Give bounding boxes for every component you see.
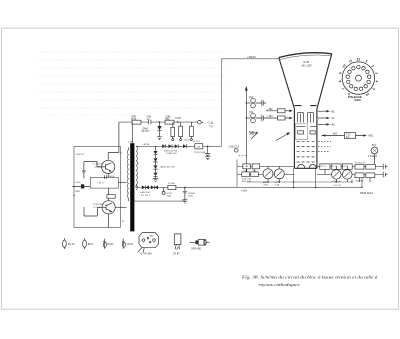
wire chain feed vertical <box>131 122 133 143</box>
wire grid feed lower with resistor R72 <box>266 117 289 119</box>
resistor row2 right b <box>366 173 375 178</box>
resistor row1 right c <box>342 164 352 169</box>
focus divider C54 circles <box>251 113 256 118</box>
resistor row2 right a <box>355 173 364 178</box>
wire transformer bottom return <box>134 200 185 202</box>
potentiometer 0.9k circle b <box>343 170 353 180</box>
node enclosure junction <box>73 195 74 196</box>
svg-text:rayons cathodiques: rayons cathodiques <box>259 282 300 287</box>
focus divider C52 circles <box>251 98 256 103</box>
svg-text:+ 50V: + 50V <box>241 190 248 193</box>
wire anode to C52 <box>246 102 250 104</box>
wire G-network row 2 <box>237 173 383 175</box>
svg-text:T2 BD233: T2 BD233 <box>93 204 104 206</box>
svg-text:44.2TR: 44.2TR <box>142 131 150 133</box>
svg-text:A40U (6) 1/TR: A40U (6) 1/TR <box>161 165 176 168</box>
capacitor C53 <box>255 100 266 106</box>
wire neck right out 3 <box>318 123 327 125</box>
capacitor electrolytic C-BL <box>81 184 84 188</box>
diode DH1 <box>162 144 165 148</box>
svg-text:B2B: B2B <box>189 195 194 197</box>
resistor R24B on bus <box>168 185 176 189</box>
resistor row1 left b <box>252 164 260 169</box>
svg-text:B4M: B4M <box>355 98 362 102</box>
wire anode vertical <box>245 88 247 172</box>
CRT gun electrode G1/G2 strokes <box>298 113 314 123</box>
svg-text:C2A.B: C2A.B <box>126 243 133 246</box>
svg-text:R-74: R-74 <box>332 166 338 168</box>
resistor row2 left a <box>242 172 250 177</box>
svg-text:BM2: BM2 <box>150 236 154 238</box>
wire anode to C54 <box>246 117 250 119</box>
CRT tube B4M bell outline <box>279 53 332 169</box>
capacitor TB22B <box>183 187 187 199</box>
diode DH2 <box>168 144 171 148</box>
transistor case TO-3 outline <box>139 233 158 248</box>
wire stub connectors G-network <box>247 166 370 182</box>
resistor R73 <box>320 164 330 169</box>
potentiometer R201 circle <box>274 169 284 179</box>
transformer secondary winding <box>136 146 137 189</box>
capacitor TP-22Z <box>205 146 210 156</box>
connector 2-MCC2-A <box>234 148 238 152</box>
svg-text:C.B C.B: C.B C.B <box>333 185 341 187</box>
svg-text:BZR: BZR <box>76 191 81 193</box>
diode DS1 <box>153 151 157 154</box>
svg-text:45B'U (6) T/B: 45B'U (6) T/B <box>164 150 178 152</box>
diode DS2 <box>153 158 157 161</box>
resistor row1 right d <box>355 164 364 169</box>
legend ground lug GROUND <box>190 241 196 243</box>
svg-text:R-223: R-223 <box>194 141 201 143</box>
capacitor C55 <box>255 115 266 121</box>
svg-text:R-73: R-73 <box>321 166 327 168</box>
node G-network junction dots <box>246 166 247 167</box>
capacitor C-BU input <box>82 162 85 179</box>
capacitor C5B <box>149 120 151 125</box>
svg-text:T-23: T-23 <box>346 134 351 136</box>
resistor vertical R65 <box>179 126 183 136</box>
wire HV vertical <box>221 59 223 147</box>
svg-text:12A: 12A <box>167 195 171 198</box>
wire Bu stub <box>374 154 376 164</box>
resistor R6B <box>132 120 141 124</box>
svg-text:+12V B: +12V B <box>93 207 101 209</box>
capacitor C4BU4 <box>105 175 107 179</box>
svg-text:RQ.K2: RQ.K2 <box>68 244 76 246</box>
transistor T1 <box>102 160 115 173</box>
legend capacitor symbol C2A <box>122 239 125 249</box>
tube socket diagram B4M <box>338 58 379 103</box>
diode DS4 <box>153 173 157 176</box>
capacitor out right row2 <box>383 172 387 178</box>
legend diode symbol BQ4 <box>103 239 106 249</box>
transformer primary winding <box>127 150 128 198</box>
wire HV top horizontal <box>222 58 279 60</box>
svg-text:+820V: +820V <box>247 55 257 59</box>
wire neck right out 2 <box>318 117 327 119</box>
capacitor out right row1 <box>383 164 387 170</box>
node junction TP <box>207 146 209 148</box>
svg-text:TP-22Z 82B: TP-22Z 82B <box>194 152 206 154</box>
svg-text:2-4GE-M: 2-4GE-M <box>368 156 377 158</box>
svg-text:TV: TV <box>209 125 213 129</box>
CRT gun anode bars <box>297 125 306 127</box>
svg-text:G1B: G1B <box>264 184 269 186</box>
svg-text:C4B 152: C4B 152 <box>76 154 85 156</box>
wire boost row with resistor T23 <box>322 135 364 137</box>
svg-text:68TK: 68TK <box>131 119 137 121</box>
svg-text:R224: R224 <box>185 139 191 141</box>
CRT heater filaments <box>298 164 305 168</box>
legend resistor symbol B2T <box>83 240 87 247</box>
potentiometer focus pot arrow R702 <box>251 133 257 139</box>
wire top chain <box>119 121 198 123</box>
wire dashed gun taps right <box>239 141 332 155</box>
svg-text:C-BU: C-BU <box>75 182 81 184</box>
legend crystal CR BT <box>174 234 181 245</box>
resistor R223 <box>195 144 203 149</box>
wire T2 emitter down <box>108 214 110 228</box>
resistor row1 left a <box>243 164 251 169</box>
svg-text:L50 1?: L50 1? <box>98 183 105 185</box>
wire bottom bus B <box>246 179 352 182</box>
svg-text:GROUND: GROUND <box>191 248 202 250</box>
wire diode chain HV row <box>136 145 221 147</box>
resistor C5B2 <box>165 120 174 124</box>
svg-text:LB'CBL: LB'CBL <box>143 144 151 146</box>
diode D5 vertical <box>157 126 161 130</box>
CRT gun inner frame <box>295 124 307 139</box>
legend resistor symbol RQ.K <box>63 240 67 247</box>
lamp Bu circle <box>371 147 378 154</box>
svg-text:R-75: R-75 <box>343 166 349 168</box>
CRT gun grid dashes <box>297 141 315 162</box>
svg-text:12: 12 <box>357 58 361 62</box>
CRT neck pin wire right <box>315 168 317 187</box>
wire G-network left bus <box>236 160 238 188</box>
svg-text:BQ42: BQ42 <box>108 244 115 246</box>
diode DB1 pair on bottom bus <box>142 185 145 189</box>
svg-text:R-24B: R-24B <box>168 183 175 185</box>
svg-text:T1,T04,.BM: T1,T04,.BM <box>140 254 152 256</box>
ground TP <box>205 157 210 160</box>
test point TP47 <box>163 187 165 191</box>
svg-text:L5MH: L5MH <box>142 128 148 130</box>
wire T2 collector to transformer <box>115 206 126 208</box>
coil box L50 <box>90 177 118 188</box>
diode DH3 <box>175 144 178 148</box>
CRT neck pin wire left <box>293 168 295 187</box>
node junction <box>159 121 161 123</box>
oscillator shield enclosure <box>74 146 120 227</box>
CRT coating contact bars <box>295 105 317 107</box>
svg-text:R 63x: R 63x <box>175 118 182 120</box>
svg-text:+12V B: +12V B <box>94 166 102 168</box>
wire L50 to transformer <box>118 182 126 184</box>
svg-text:R26 R27: R26 R27 <box>356 181 365 183</box>
svg-text:A41-122P: A41-122P <box>302 64 313 67</box>
wire G1 feed arrow into neck <box>276 134 288 141</box>
svg-text:44BU 10/C: 44BU 10/C <box>140 192 151 194</box>
svg-text:R702: R702 <box>249 132 255 134</box>
diode DH4 <box>183 144 186 148</box>
ground diode stack <box>153 178 159 181</box>
ground TB22B <box>182 200 187 203</box>
potentiometer 0.9k circle a <box>332 170 342 180</box>
wire T2 base left <box>84 207 97 216</box>
potentiometer A4BJ circle <box>263 169 273 179</box>
resistor vertical R66 <box>190 126 194 136</box>
resistor row2 left b <box>251 172 258 177</box>
resistor row1 right e <box>366 164 376 169</box>
svg-text:Fig. 38. Schéma du circuit du: Fig. 38. Schéma du circuit du bloc à hau… <box>241 275 379 280</box>
wire drive feed <box>108 122 119 160</box>
svg-text:2-MCC2-A: 2-MCC2-A <box>229 146 240 149</box>
diode DS3 <box>153 165 157 168</box>
transformer T-BB core <box>130 143 134 231</box>
svg-text:B 4M: B 4M <box>304 62 309 64</box>
wire T1 to L50 <box>107 174 109 178</box>
svg-text:CR BT: CR BT <box>173 254 180 256</box>
diode stack vertical wire <box>155 146 157 151</box>
svg-text:1.5M: 1.5M <box>196 147 200 149</box>
wire neck right out 1 <box>318 110 327 112</box>
svg-text:24 BB 10/5: 24 BB 10/5 <box>166 153 178 155</box>
svg-text:T1 BD233: T1 BD233 <box>93 164 104 166</box>
svg-text:C4BU4: C4BU4 <box>108 176 116 178</box>
transistor T2 <box>102 201 115 214</box>
resistor vertical R64 <box>171 127 175 136</box>
svg-text:BY 127 S: BY 127 S <box>141 195 151 197</box>
svg-text:+TB4: +TB4 <box>267 116 273 118</box>
CRT gun focus boxes <box>298 131 304 134</box>
wire bottom bus A <box>136 178 363 188</box>
resistor R-B2 <box>107 195 115 199</box>
diode DB2 pair on bottom bus <box>151 185 154 189</box>
wire G-network row 1 <box>237 165 383 167</box>
node junction dots <box>246 102 247 103</box>
node junction with label R63x <box>177 121 179 123</box>
anode supply arrow <box>245 86 248 91</box>
resistor row1 right b <box>331 164 341 169</box>
terminal C.&L TV <box>198 120 202 124</box>
svg-text:+B02: +B02 <box>368 136 374 138</box>
svg-text:PEM 4012: PEM 4012 <box>360 191 374 195</box>
node bus junctions <box>293 187 295 189</box>
wire grid feed upper with resistor R71 <box>266 110 289 112</box>
socket pin number labels <box>338 58 379 97</box>
svg-text:+TB2: +TB2 <box>267 109 273 111</box>
svg-text:R-76 R-77: R-76 R-77 <box>355 163 366 165</box>
svg-text:B2T.2: B2T.2 <box>88 244 95 246</box>
svg-text:C2B: C2B <box>275 184 280 186</box>
